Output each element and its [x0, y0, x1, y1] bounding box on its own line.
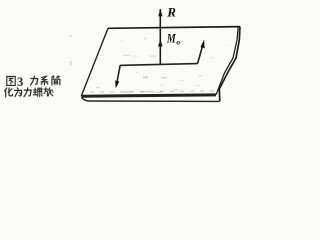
plate top edge [108, 27, 240, 29]
svg-text:R: R [166, 4, 176, 19]
wrench axis vertical line [159, 9, 161, 64]
force R arrowhead [158, 9, 162, 17]
plate bottom slab line [82, 98, 220, 102]
caption line 1: 力 [31, 76, 38, 85]
caption line 1: 系 [41, 76, 48, 85]
moment M0 arrowhead [158, 40, 163, 47]
couple left force shaft [117, 65, 120, 82]
scan speckles [70, 36, 231, 93]
caption line 1: 图 [7, 77, 15, 86]
couple step horizontal line [120, 64, 198, 66]
couple right force shaft [198, 47, 203, 64]
caption line 2: 螺 [33, 88, 42, 97]
plate right edge inner line [216, 27, 238, 94]
plate right edge outer line [219, 27, 240, 102]
caption line 2: 力 [24, 88, 31, 97]
svg-text:M: M [166, 33, 177, 46]
couple right force arrowhead (up) [201, 40, 205, 49]
svg-text:o: o [176, 37, 180, 46]
caption line 2: 化 [5, 88, 13, 97]
speckle band above front edge [90, 91, 214, 92]
caption line 1: 简 [52, 76, 60, 85]
plate front edge thick [81, 95, 216, 96]
couple left force arrowhead (down) [115, 81, 119, 89]
caption line 2: 为 [15, 88, 22, 97]
caption line 2: 旋 [44, 88, 53, 96]
paper background [0, 0, 250, 115]
svg-text:3: 3 [17, 75, 23, 89]
plate left edge [81, 28, 108, 96]
